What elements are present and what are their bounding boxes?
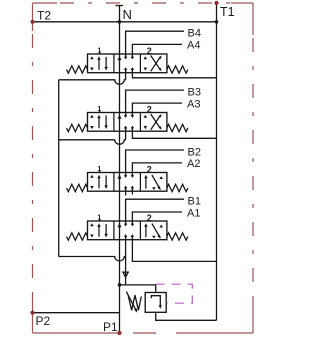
svg-text:N: N [123, 7, 132, 22]
svg-text:1: 1 [97, 214, 101, 221]
svg-text:P1: P1 [103, 320, 118, 334]
svg-text:A3: A3 [187, 99, 200, 111]
svg-text:T2: T2 [37, 9, 51, 23]
svg-text:B3: B3 [188, 87, 201, 99]
svg-text:B2: B2 [188, 147, 201, 159]
svg-text:2: 2 [147, 46, 152, 56]
svg-text:A2: A2 [187, 158, 200, 170]
svg-text:A1: A1 [187, 208, 200, 220]
svg-text:1: 1 [97, 166, 101, 173]
svg-text:B1: B1 [188, 196, 201, 208]
svg-text:1: 1 [97, 47, 101, 54]
svg-text:T1: T1 [220, 5, 235, 19]
svg-text:B4: B4 [188, 28, 201, 40]
svg-text:2: 2 [147, 104, 152, 114]
svg-text:2: 2 [147, 164, 152, 174]
svg-text:A4: A4 [187, 40, 200, 52]
svg-text:1: 1 [97, 106, 101, 113]
svg-text:2: 2 [147, 213, 152, 223]
svg-text:P2: P2 [36, 314, 51, 328]
